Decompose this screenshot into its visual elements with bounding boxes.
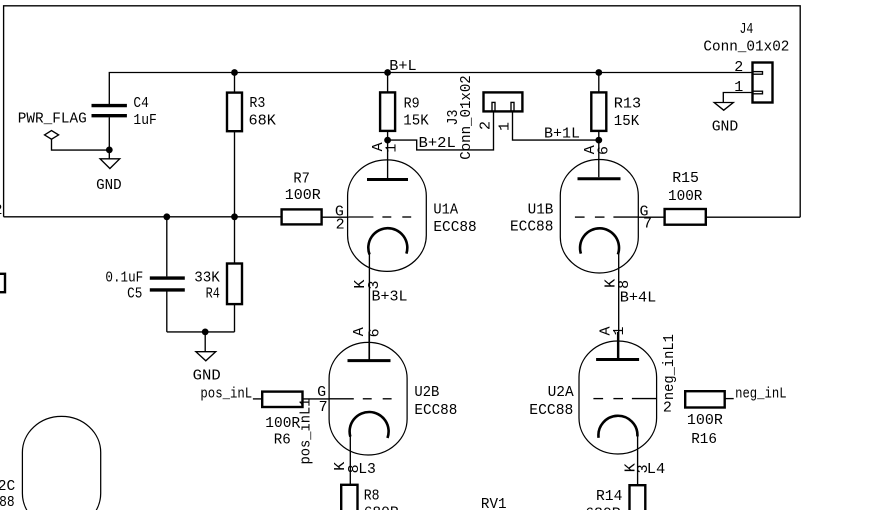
resistor R8: [341, 485, 357, 510]
svg-text:Conn_01x02: Conn_01x02: [703, 38, 789, 55]
svg-text:33K: 33K: [194, 270, 220, 287]
resistor partial left edge: [0, 274, 5, 292]
svg-text:2: 2: [734, 59, 743, 76]
svg-text:B+3L: B+3L: [372, 288, 408, 305]
junction ground mid: [202, 329, 209, 336]
svg-text:PWR_FLAG: PWR_FLAG: [18, 111, 87, 128]
svg-text:6: 6: [366, 328, 383, 337]
svg-text:J4: J4: [740, 21, 754, 38]
svg-text:U2A: U2A: [548, 384, 574, 401]
svg-text:7: 7: [643, 216, 652, 233]
junction bus-R9: [384, 69, 391, 76]
wire B+L bus: [109, 73, 752, 105]
svg-text:B+4L: B+4L: [620, 290, 657, 307]
svg-text:B+L: B+L: [389, 58, 416, 75]
junction R13-B+1L: [595, 137, 602, 144]
svg-text:100R: 100R: [265, 415, 300, 432]
svg-text:GND: GND: [96, 177, 122, 194]
svg-text:6: 6: [595, 146, 612, 155]
svg-text:0.1uF: 0.1uF: [105, 270, 143, 287]
svg-text:2: 2: [663, 399, 672, 416]
power flag PWR_FLAG: [45, 131, 110, 151]
wire pos_inL: [253, 398, 262, 400]
triode U2A: [579, 332, 657, 485]
svg-text:1uF: 1uF: [133, 112, 156, 129]
wire J4 pin1 to GND: [723, 93, 752, 103]
connector J4: [753, 63, 773, 103]
svg-text:ECC88: ECC88: [433, 219, 476, 236]
svg-text:C5: C5: [127, 286, 142, 303]
svg-text:Conn_01x02: Conn_01x02: [458, 75, 475, 160]
svg-text:C4: C4: [133, 95, 148, 112]
svg-text:GND: GND: [712, 118, 739, 135]
svg-text:R15: R15: [672, 170, 699, 187]
svg-text:U1A: U1A: [433, 202, 458, 219]
svg-text:2C: 2C: [0, 478, 15, 495]
ground GND (C4): [100, 159, 120, 169]
capacitor C4: [92, 106, 127, 159]
ground GND (J4): [714, 103, 733, 111]
svg-text:pos_inL1: pos_inL1: [298, 399, 315, 465]
resistor R4: [227, 217, 242, 332]
svg-text:R6: R6: [274, 432, 291, 449]
wire ground stub: [204, 332, 206, 352]
resistor R15: [638, 209, 800, 225]
svg-text:ECC88: ECC88: [510, 219, 553, 236]
triode U2C partial: [22, 416, 100, 510]
svg-text:1: 1: [497, 122, 514, 131]
svg-text:100R: 100R: [285, 187, 321, 204]
junction bus-R3: [231, 69, 238, 76]
svg-text:R7: R7: [293, 171, 310, 188]
svg-text:680R: 680R: [585, 506, 621, 510]
wire feedback loop border: [4, 6, 801, 217]
svg-text:neg_inL1: neg_inL1: [661, 334, 678, 400]
junction C5: [163, 213, 170, 220]
svg-text:1: 1: [383, 144, 400, 153]
svg-text:U1B: U1B: [528, 202, 554, 219]
svg-text:R14: R14: [596, 488, 622, 505]
svg-text:R8: R8: [364, 488, 380, 505]
svg-text:100R: 100R: [687, 412, 723, 429]
junction bus-R13: [595, 69, 602, 76]
resistor R14: [630, 485, 646, 510]
svg-text:68K: 68K: [249, 112, 276, 129]
junction R9-B+2L: [384, 137, 391, 144]
svg-text:B+1L: B+1L: [544, 126, 580, 143]
svg-text:2: 2: [0, 202, 3, 219]
svg-text:L3: L3: [358, 461, 376, 478]
svg-text:15K: 15K: [403, 113, 428, 130]
wire B+2L: [388, 111, 494, 149]
svg-text:ECC88: ECC88: [529, 402, 573, 419]
resistor R16: [685, 391, 734, 407]
resistor R13: [591, 73, 606, 141]
triode U1A: [348, 140, 427, 361]
svg-text:neg_inL: neg_inL: [735, 386, 787, 403]
svg-text:1: 1: [611, 326, 628, 335]
svg-text:1: 1: [734, 79, 743, 96]
wire grid loop left: [4, 216, 282, 218]
svg-text:B+2L: B+2L: [419, 135, 456, 152]
svg-text:R9: R9: [404, 96, 420, 113]
triode U2B: [329, 332, 407, 485]
junction R4: [231, 213, 238, 220]
triode U1B: [560, 140, 638, 360]
svg-text:GND: GND: [193, 368, 221, 385]
svg-text:ECC88: ECC88: [414, 402, 457, 419]
svg-text:R3: R3: [249, 95, 265, 112]
svg-text:R13: R13: [614, 95, 641, 112]
svg-text:7: 7: [319, 399, 328, 416]
svg-text:15K: 15K: [614, 113, 639, 130]
svg-text:R16: R16: [691, 431, 717, 448]
ground GND (mid): [196, 352, 216, 361]
resistor R9: [380, 73, 395, 141]
svg-text:88: 88: [0, 494, 15, 510]
svg-text:2: 2: [478, 121, 495, 130]
wire B+1L: [513, 111, 599, 140]
capacitor C5: [150, 217, 185, 332]
svg-text:R4: R4: [206, 286, 220, 303]
svg-text:8: 8: [616, 280, 633, 289]
junction C4-GND: [106, 147, 113, 154]
svg-text:pos_inL: pos_inL: [200, 386, 252, 403]
wire C5/R4 to ground: [167, 331, 235, 333]
resistor R7: [282, 209, 349, 224]
svg-text:U2B: U2B: [414, 384, 439, 401]
svg-text:A: A: [351, 327, 368, 336]
svg-text:RV1: RV1: [481, 496, 507, 510]
svg-text:L4: L4: [647, 461, 666, 478]
resistor R6: [262, 392, 329, 407]
connector J3: [484, 92, 523, 111]
svg-text:100R: 100R: [668, 188, 702, 205]
resistor R3: [227, 73, 242, 217]
svg-text:680R: 680R: [364, 505, 399, 510]
svg-text:2: 2: [336, 216, 345, 233]
